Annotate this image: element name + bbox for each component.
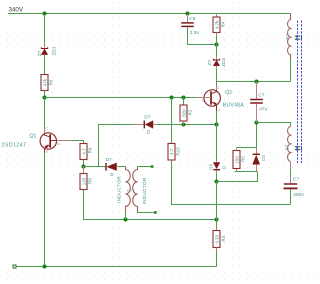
node junction C7 top [254, 79, 258, 83]
wire junction right to R5/D2 block [217, 172, 258, 182]
svg-text:R3: R3 [221, 235, 226, 241]
diode D? (small, cathode left) [106, 157, 120, 177]
svg-text:200n: 200n [293, 192, 304, 198]
svg-text:5: 5 [57, 142, 59, 146]
node junction C6 tap [185, 11, 189, 15]
node open pin square bottom left [13, 265, 16, 268]
node junction R6 / rail / Q1 collector [42, 95, 46, 99]
wire D3 to junction [216, 174, 218, 182]
svg-text:Q1: Q1 [30, 134, 37, 140]
node pin square top [151, 165, 154, 168]
node junction bottom rail emitter [42, 264, 46, 268]
svg-text:R2: R2 [187, 109, 192, 115]
wire right inductor top pin [138, 166, 152, 168]
svg-text:C: C [45, 127, 48, 131]
wire R9 to junction [83, 160, 85, 167]
svg-text:C7: C7 [258, 92, 264, 98]
resistor R10 4.7 [168, 144, 181, 161]
node junction base rail R2 [181, 95, 185, 99]
transistor Q1 2SD1247 [2, 126, 72, 154]
wire diode to left inductor [120, 166, 126, 168]
resistor R4 4.7k [213, 14, 226, 45]
node junction R2 bottom [181, 122, 185, 126]
node junction emitter line [214, 122, 218, 126]
diode D7 (cathode left) [135, 115, 158, 135]
svg-text:C?: C? [293, 177, 299, 183]
svg-text:R9: R9 [88, 147, 93, 153]
wire top 340V rail [8, 13, 291, 15]
wire bottom rail [16, 266, 217, 268]
node junction left inductor bottom [123, 217, 127, 221]
wire vertical to ZD1 [44, 14, 46, 46]
capacitor C? 200n [284, 177, 305, 199]
wire ZD1 to R6 [44, 58, 46, 75]
wire C6 to junction [188, 27, 217, 44]
svg-text:4.7: 4.7 [169, 148, 174, 155]
node pin square bottom [154, 211, 157, 214]
resistor R5 150 [233, 148, 246, 172]
svg-text:2SD1247: 2SD1247 [2, 143, 27, 149]
wire ZD2 to Q2 collector [216, 69, 218, 86]
wire R10 chain vertical [171, 98, 173, 144]
zener ZD2 [207, 45, 227, 69]
wire D7 to Q2 emitter rail [158, 124, 217, 126]
svg-text:R5: R5 [241, 156, 246, 162]
capacitor C6 3.3n [181, 14, 199, 36]
wire Q1 emitter down to bottom rail [44, 153, 46, 267]
svg-text:340V: 340V [9, 6, 24, 13]
svg-text:BUV48A: BUV48A [223, 103, 244, 109]
wire Q2 emitter down [216, 111, 218, 160]
svg-text:Z?: Z? [37, 50, 43, 56]
capacitor C7 47u [250, 82, 267, 123]
svg-text:S?: S? [284, 144, 289, 150]
node junction R9/R8/diode rail [81, 164, 85, 168]
inductor right INDUCTOR [133, 167, 147, 212]
svg-text:R4: R4 [221, 21, 226, 27]
svg-text:150: 150 [234, 156, 239, 164]
svg-text:120: 120 [81, 177, 86, 185]
svg-text:820: 820 [181, 109, 186, 117]
svg-text:1: 1 [202, 99, 204, 103]
svg-text:2: 2 [217, 86, 219, 90]
wire Q1 collector [44, 98, 46, 127]
svg-text:4.7: 4.7 [81, 148, 86, 155]
transformer secondary winding S? [284, 126, 290, 161]
wire R10 down to cap rail [172, 160, 291, 205]
transformer polarity marks top [295, 36, 300, 39]
svg-text:D2: D2 [261, 154, 266, 160]
transformer primary winding P? [285, 14, 291, 59]
svg-text:D?: D? [106, 157, 112, 162]
node junction top rail / ZD1 [42, 11, 46, 15]
resistor R6 47k [41, 75, 54, 91]
node junction C7 bottom [254, 120, 258, 124]
svg-text:R6: R6 [49, 79, 54, 85]
svg-text:R8: R8 [88, 178, 93, 184]
svg-text:ZD1: ZD1 [51, 46, 57, 55]
node junction below D3 [214, 179, 218, 183]
svg-text:ZD2: ZD2 [221, 57, 227, 66]
wire primary bottom to collector rail [290, 59, 292, 82]
wire left inductor bottom to rail [125, 211, 127, 220]
wire right inductor bottom pin [138, 212, 155, 213]
resistor R2 820 [180, 98, 192, 125]
svg-text:Q2: Q2 [225, 90, 232, 96]
wire secondary bottom to cap [290, 162, 292, 170]
diode D3 (cathode down) [208, 160, 226, 174]
wire C7 bottom to secondary winding [257, 123, 291, 127]
svg-text:R10: R10 [176, 147, 181, 156]
node junction base rail R10 [169, 95, 173, 99]
svg-text:47u: 47u [259, 107, 267, 113]
svg-text:E: E [46, 150, 49, 154]
resistor R3 0.33 [213, 220, 226, 267]
node junction lower rail / R3 [214, 217, 218, 221]
svg-text:0.33: 0.33 [214, 234, 219, 243]
svg-text:Z?: Z? [207, 60, 213, 66]
svg-text:4.7k: 4.7k [214, 20, 219, 29]
svg-text:INDUCTOR: INDUCTOR [142, 177, 147, 204]
wire collector rail to transformer [217, 81, 291, 83]
svg-text:INDUCTOR: INDUCTOR [117, 176, 122, 203]
svg-text:C6: C6 [189, 16, 195, 22]
inductor left INDUCTOR [117, 167, 131, 211]
wire cap bottom to rail [290, 189, 292, 204]
node junction C6/R4/ZD2 [214, 42, 218, 46]
transformer core lines [298, 21, 302, 164]
wire mid rail to small diode [84, 166, 106, 168]
wire Q1 base to R9 [71, 141, 84, 144]
zener ZD1 [37, 46, 57, 58]
diode D2 (cathode up) [253, 148, 266, 172]
wire rail y97 to Q2 base [45, 97, 197, 99]
wire R8 down and right along lower rail [84, 190, 217, 220]
wire D7 branch corner [99, 125, 135, 167]
svg-text:47k: 47k [43, 78, 48, 86]
wire junction down to lower rail [216, 182, 218, 220]
transformer polarity marks bottom [295, 147, 300, 150]
wire R6 to base rail node [44, 91, 46, 98]
svg-text:D3: D3 [208, 163, 213, 169]
svg-text:3: 3 [218, 108, 220, 112]
wire R5/D2 top rail up to C7 bottom node [237, 123, 257, 148]
svg-text:3.3n: 3.3n [190, 30, 200, 36]
transistor Q2 BUV48A [196, 86, 244, 113]
svg-text:D?: D? [144, 115, 150, 120]
resistor R8 120 [80, 167, 93, 190]
svg-text:P?: P? [285, 34, 290, 40]
resistor R9 4.7 [80, 144, 93, 160]
